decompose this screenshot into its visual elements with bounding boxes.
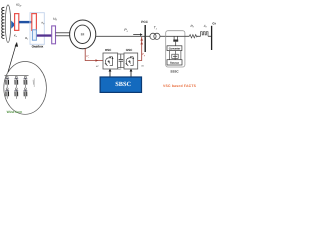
- inductor X_e: [201, 32, 208, 37]
- control arrow to GSC: [130, 71, 132, 78]
- hub arrow (blue triangle): [11, 21, 15, 29]
- wind farm turbine r1c1: [5, 76, 9, 87]
- grid wire (red) GSC to PCC: [138, 37, 142, 61]
- DC link box: [118, 54, 124, 68]
- rotor wire arrowhead: [96, 59, 99, 62]
- wind farm turbine r2c2: [14, 88, 18, 99]
- GSC IGBT glyph: [126, 57, 134, 66]
- low-speed shaft (blue): [19, 21, 32, 23]
- stator line to PCC: [96, 35, 145, 37]
- gear rect low side (blue): [32, 30, 36, 40]
- power flow arrow: [133, 34, 140, 36]
- svg-text:SBSC: SBSC: [115, 81, 131, 88]
- svg-text:Converter: Converter: [169, 48, 181, 51]
- wind turbine blade stack: [2, 7, 5, 38]
- red up arrowhead 1: [140, 38, 143, 41]
- svg-text:GSC: GSC: [126, 48, 133, 52]
- mass block J2 (purple rect): [52, 26, 56, 44]
- line through SSSC box: [166, 35, 185, 37]
- transformer T1 circles: [150, 33, 156, 39]
- svg-text:Wind farm: Wind farm: [7, 110, 23, 114]
- grid bus bar: [211, 26, 213, 50]
- high-speed shaft (purple): [37, 34, 52, 36]
- generator outer circle: [70, 20, 96, 49]
- svg-text:Source: Source: [170, 62, 180, 65]
- svg-text:PCC: PCC: [141, 20, 148, 24]
- resistor R_e zigzag: [189, 35, 197, 38]
- red up arrowhead 2: [140, 42, 143, 45]
- annotation arrow: [8, 44, 16, 73]
- mass block J1 (red rect): [15, 14, 19, 31]
- source box: [167, 60, 182, 65]
- RSC IGBT glyph: [105, 57, 113, 66]
- converter box: [167, 46, 182, 51]
- wind farm turbine r2c1: [5, 88, 9, 99]
- dc bus side wires: [168, 51, 170, 60]
- svg-text:AC: AC: [141, 65, 144, 68]
- wind farm turbine r1c2: [14, 76, 18, 87]
- GSC converter box: [124, 53, 138, 69]
- svg-text:IM: IM: [81, 33, 85, 37]
- wind farm bus line: [5, 74, 29, 76]
- svg-text:Gearbox: Gearbox: [32, 44, 44, 48]
- rotor swept disc ellipse: [5, 5, 10, 43]
- shaft double line to generator: [56, 32, 71, 34]
- dc capacitor: [172, 54, 178, 58]
- SSSC outer box: [166, 31, 185, 67]
- svg-text:Gri: Gri: [212, 21, 216, 25]
- svg-text:RSC: RSC: [105, 48, 112, 52]
- line SSSC to resistor: [185, 35, 189, 37]
- SBSC controller box: [100, 77, 141, 92]
- wind farm turbine r1c3: [24, 76, 28, 87]
- control arrow to RSC: [109, 71, 111, 78]
- svg-text:AC: AC: [96, 65, 99, 68]
- svg-text:DC: DC: [118, 68, 122, 71]
- line transformer to SSSC box: [160, 35, 166, 37]
- RSC converter box: [103, 53, 118, 69]
- series injection transformer: [173, 36, 175, 39]
- generator inner circle: [75, 25, 91, 43]
- line resistor to inductor: [197, 35, 201, 37]
- gear rect high side (red): [32, 14, 37, 31]
- DC link capacitor: [120, 54, 122, 59]
- line PCC to transformer: [145, 35, 150, 37]
- svg-text:SSSC: SSSC: [170, 69, 179, 73]
- PCC bus bar: [144, 25, 146, 52]
- line inductor to grid: [208, 35, 212, 37]
- wind farm turbine r2c3: [24, 88, 28, 99]
- wind farm circle: [4, 62, 47, 115]
- gearbox boundary box: [30, 13, 44, 45]
- rotor wire (red) generator to RSC: [85, 48, 103, 60]
- svg-text:VSC based FACTS: VSC based FACTS: [163, 84, 197, 88]
- wind farm turbine r1c4 faint: [33, 78, 34, 87]
- wire transformer to converter: [175, 42, 177, 46]
